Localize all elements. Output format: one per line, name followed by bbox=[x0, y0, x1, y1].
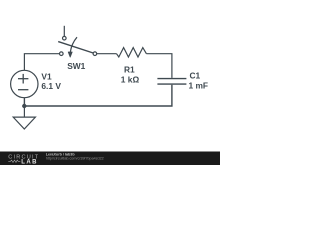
switch SW1 actuation arrow bbox=[70, 37, 77, 52]
V1 plus sign bbox=[18, 74, 28, 90]
svg-text:C1: C1 bbox=[190, 71, 201, 81]
capacitor C1 top plate bbox=[157, 78, 186, 80]
switch SW1 left terminal bbox=[60, 52, 64, 56]
svg-text:R1: R1 bbox=[124, 65, 135, 75]
voltage source V1 bbox=[11, 70, 38, 97]
wire V1 top to switch bbox=[24, 54, 59, 71]
svg-text:6.1 V: 6.1 V bbox=[41, 81, 61, 91]
svg-text:SW1: SW1 bbox=[67, 61, 85, 71]
junction node bbox=[22, 104, 26, 108]
svg-text:1 mF: 1 mF bbox=[189, 81, 209, 91]
wire switch to resistor bbox=[97, 53, 117, 55]
capacitor C1 bottom plate bbox=[157, 83, 186, 85]
ground stem bbox=[23, 106, 25, 117]
wire resistor to capacitor top corner bbox=[146, 54, 172, 78]
switch SW1 top stub bbox=[63, 26, 65, 37]
svg-text:LAB: LAB bbox=[21, 159, 38, 165]
watermark bar bbox=[0, 152, 220, 166]
V1 minus sign bbox=[18, 89, 28, 91]
ground bbox=[13, 117, 35, 129]
switch SW1 lever bbox=[58, 42, 93, 53]
svg-text:http//circuitlab.com/c/39f7bpa: http//circuitlab.com/c/39f7bpa4zd22 bbox=[46, 156, 104, 160]
labels bbox=[41, 61, 208, 91]
wire capacitor bottom to ground bus bbox=[24, 85, 172, 106]
switch SW1 right terminal bbox=[93, 52, 97, 56]
resistor R1 zigzag bbox=[117, 48, 147, 57]
switch SW1 top terminal bbox=[63, 36, 67, 40]
svg-text:1 kΩ: 1 kΩ bbox=[121, 75, 140, 85]
CircuitLab logo zigzag bbox=[8, 160, 20, 162]
